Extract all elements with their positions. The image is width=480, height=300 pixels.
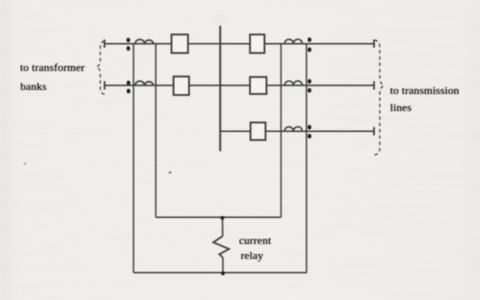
wire line L1 (feeder 1) bbox=[105, 43, 375, 45]
tick L2 left end bbox=[104, 81, 106, 89]
speck 1 bbox=[169, 172, 172, 174]
junction dot bottom wire bbox=[221, 272, 225, 276]
wire relay tap lower bbox=[222, 258, 224, 273]
wire CT secondary right outer bbox=[306, 44, 308, 273]
wire line L3 (feeder 3) bbox=[220, 130, 374, 132]
label "lines" bbox=[390, 103, 412, 114]
breaker S2 bbox=[174, 77, 190, 96]
smudge above bus top bbox=[212, 15, 226, 26]
bus bar bbox=[219, 26, 221, 152]
junction dot differential bus bbox=[221, 216, 225, 220]
tick L1 right end bbox=[373, 40, 375, 48]
tick L3 right end bbox=[373, 127, 375, 135]
label "current" bbox=[239, 236, 271, 247]
polarity dot right L2 lower bbox=[308, 88, 312, 93]
wire CT secondary right inner bbox=[280, 44, 282, 218]
wire relay tap upper bbox=[221, 217, 223, 236]
bracket right dashed bbox=[375, 40, 384, 155]
wire differential bus bbox=[156, 216, 281, 218]
wire line L2 (feeder 2) bbox=[105, 84, 374, 86]
CT coil right L3 bbox=[285, 127, 303, 131]
breaker R2 bbox=[250, 77, 267, 94]
tick L1 left end bbox=[104, 40, 106, 48]
label "banks" bbox=[20, 82, 46, 93]
polarity dot right L1 lower bbox=[308, 47, 312, 52]
current relay zigzag bbox=[213, 236, 229, 258]
label "relay" bbox=[241, 251, 264, 262]
polarity dot right L3 upper bbox=[308, 125, 312, 130]
polarity dot left L1 upper bbox=[126, 38, 130, 43]
breaker S1 bbox=[172, 35, 189, 54]
tick L2 right end bbox=[373, 81, 375, 89]
polarity dot left L1 lower bbox=[126, 46, 130, 51]
CT coil right L2 bbox=[285, 81, 303, 85]
speck 2 bbox=[24, 163, 27, 165]
wire relay return bottom bbox=[134, 272, 308, 274]
CT coil right L1 bbox=[285, 39, 303, 43]
label "to transformer" bbox=[20, 63, 85, 74]
breaker R1 bbox=[250, 35, 265, 54]
polarity dot left L2 upper bbox=[127, 81, 131, 86]
bracket left dashed bbox=[97, 41, 105, 95]
label "to transmission" bbox=[390, 86, 459, 97]
polarity dot right L2 upper bbox=[308, 79, 312, 84]
breaker R3 bbox=[251, 123, 266, 141]
CT coil left L1 bbox=[135, 39, 153, 43]
wire CT secondary left outer bbox=[133, 44, 135, 273]
polarity dot right L1 upper bbox=[308, 37, 312, 42]
wire CT secondary left inner bbox=[155, 44, 157, 218]
polarity dot left L2 lower bbox=[127, 89, 131, 94]
CT coil left L2 bbox=[135, 81, 153, 85]
polarity dot right L3 lower bbox=[308, 134, 312, 139]
